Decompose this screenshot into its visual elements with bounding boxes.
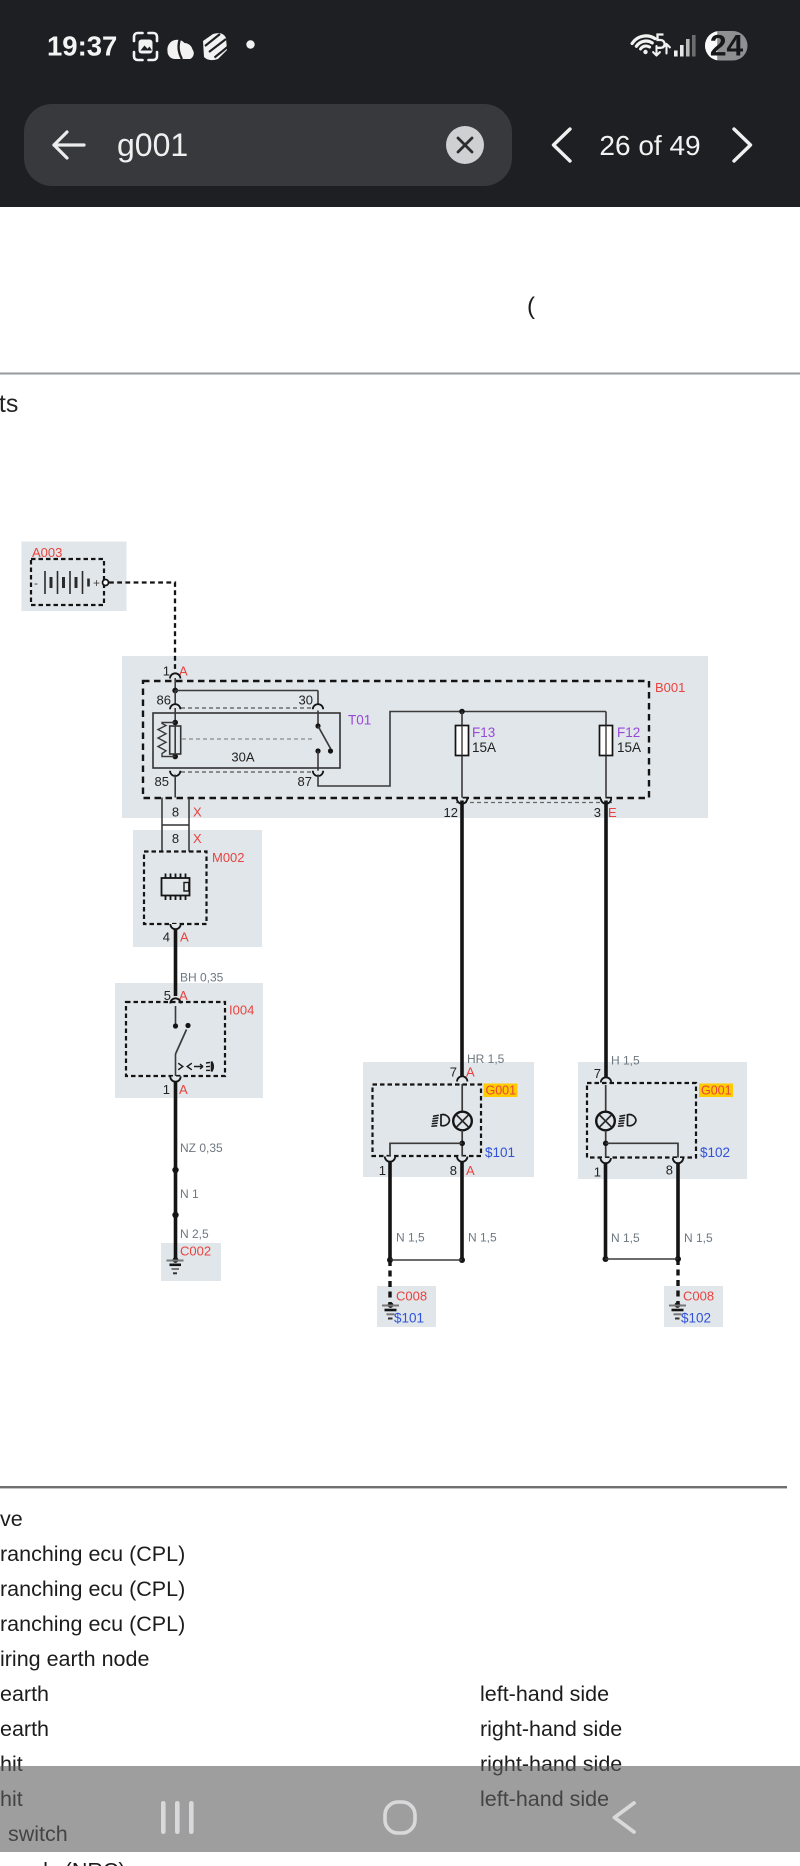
svg-text:iring earth node: iring earth node [0, 1647, 149, 1671]
svg-text:8: 8 [450, 1163, 457, 1178]
svg-text:7: 7 [594, 1066, 601, 1081]
svg-text:ranching ecu (CPL): ranching ecu (CPL) [0, 1542, 185, 1566]
svg-text:8: 8 [172, 831, 179, 846]
svg-text:$101: $101 [485, 1145, 515, 1160]
svg-text:ve: ve [0, 1507, 23, 1531]
svg-text:1: 1 [163, 664, 170, 679]
svg-text:86: 86 [157, 693, 171, 708]
svg-text:8: 8 [666, 1163, 673, 1178]
svg-text:N 2,5: N 2,5 [180, 1227, 209, 1241]
svg-text:1: 1 [379, 1163, 386, 1178]
svg-text:right-hand side: right-hand side [480, 1717, 622, 1741]
svg-text:7: 7 [450, 1065, 457, 1080]
svg-text:G001: G001 [701, 1084, 732, 1098]
svg-text:N 1,5: N 1,5 [468, 1231, 497, 1245]
svg-text:N 1,5: N 1,5 [611, 1231, 640, 1245]
svg-text:N 1,5: N 1,5 [396, 1231, 425, 1245]
svg-text:1: 1 [163, 1082, 170, 1097]
svg-text:g001: g001 [117, 127, 188, 163]
svg-text:26 of 49: 26 of 49 [599, 130, 700, 161]
svg-text:A: A [466, 1163, 475, 1178]
svg-text:3: 3 [594, 805, 601, 820]
svg-text:I004: I004 [229, 1003, 254, 1018]
svg-text:C008: C008 [396, 1289, 427, 1304]
svg-text:85: 85 [155, 774, 169, 789]
svg-text:T01: T01 [348, 713, 371, 728]
svg-text:A003: A003 [32, 545, 62, 560]
svg-text:N 1: N 1 [180, 1187, 199, 1201]
svg-text:F13: F13 [472, 725, 495, 740]
svg-text:5: 5 [164, 988, 171, 1003]
svg-text:H 1,5: H 1,5 [611, 1054, 640, 1068]
svg-text:12: 12 [444, 805, 458, 820]
svg-text:nts: nts [0, 390, 18, 418]
svg-text:ranching ecu (CPL): ranching ecu (CPL) [0, 1612, 185, 1636]
svg-text:G001: G001 [486, 1084, 517, 1098]
svg-text:ranching ecu (CPL): ranching ecu (CPL) [0, 1577, 185, 1601]
svg-text:4: 4 [163, 930, 170, 945]
svg-text:left-hand side: left-hand side [480, 1682, 609, 1706]
svg-text:A: A [180, 930, 189, 945]
svg-text:E: E [608, 805, 617, 820]
svg-text:8: 8 [172, 805, 179, 820]
svg-text:earth: earth [0, 1717, 49, 1741]
svg-text:30A: 30A [231, 750, 254, 765]
svg-text:$102: $102 [681, 1311, 711, 1326]
svg-text:19:37: 19:37 [47, 31, 117, 62]
svg-text:C002: C002 [180, 1244, 211, 1259]
svg-text:15A: 15A [472, 740, 496, 755]
svg-text:C008: C008 [683, 1289, 714, 1304]
svg-text:$102: $102 [700, 1145, 730, 1160]
svg-text:15A: 15A [617, 740, 641, 755]
svg-text:dy (NRC): dy (NRC) [36, 1859, 126, 1866]
svg-text:M002: M002 [212, 850, 245, 865]
svg-text:24: 24 [710, 30, 744, 63]
svg-text:NZ 0,35: NZ 0,35 [180, 1141, 223, 1155]
svg-text:+: + [93, 576, 100, 590]
svg-text:X: X [193, 805, 202, 820]
svg-text:(: ( [527, 293, 535, 320]
svg-text:X: X [193, 831, 202, 846]
svg-text:F12: F12 [617, 725, 640, 740]
svg-text:B001: B001 [655, 680, 685, 695]
svg-text:30: 30 [299, 693, 313, 708]
svg-text:BH 0,35: BH 0,35 [180, 971, 224, 985]
svg-text:87: 87 [298, 774, 312, 789]
svg-text:A: A [466, 1065, 475, 1080]
svg-text:$101: $101 [394, 1311, 424, 1326]
svg-text:-: - [34, 576, 38, 590]
svg-text:earth: earth [0, 1682, 49, 1706]
svg-text:N 1,5: N 1,5 [684, 1231, 713, 1245]
svg-text:A: A [179, 1082, 188, 1097]
svg-text:1: 1 [594, 1165, 601, 1180]
